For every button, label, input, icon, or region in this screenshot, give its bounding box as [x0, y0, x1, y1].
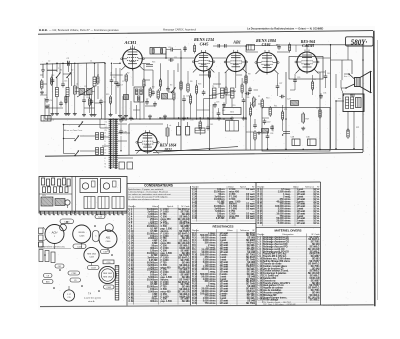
mains coil stack 2	[96, 148, 104, 155]
layout pill small	[95, 215, 105, 219]
ground D	[183, 117, 185, 119]
resistor R20	[250, 106, 252, 117]
heater winding	[166, 124, 169, 144]
oscillator coil T1	[134, 87, 144, 102]
header imprint right	[247, 26, 323, 30]
wire vertical x330	[330, 44, 332, 149]
capacitor C48	[202, 90, 206, 96]
capacitor C5	[99, 99, 106, 105]
layout pill C443c	[104, 285, 115, 289]
resistor R7	[208, 69, 210, 79]
tables outer top rule	[127, 182, 321, 184]
supply resistor R30	[199, 118, 201, 135]
switch position labels	[105, 122, 108, 169]
resistor R29	[319, 108, 321, 119]
apron small components row1	[42, 178, 71, 193]
resistor R2 cathode V1	[125, 73, 127, 83]
capacitor C11	[168, 58, 174, 62]
capacitor C15	[166, 48, 178, 52]
ground F	[258, 131, 260, 133]
wire lattice left RF	[40, 63, 102, 119]
supply cap C42	[217, 108, 221, 117]
resistor R14	[89, 97, 91, 107]
electrolytic C28	[291, 137, 301, 146]
tuning gang CV1	[77, 87, 94, 98]
resistor R17	[190, 94, 192, 105]
resistor R6	[187, 82, 189, 93]
capacitor C13	[61, 82, 65, 88]
table materiel divers rows	[258, 236, 321, 302]
trimmer CV2	[162, 94, 168, 100]
capacitor C9	[145, 99, 149, 105]
capacitor C19	[222, 102, 226, 108]
capacitor C14	[82, 98, 86, 104]
tube V3 AB1	[225, 40, 247, 74]
apron transformer hatched	[41, 195, 65, 206]
switch ladder output wires	[118, 123, 127, 125]
mains coil stack 1	[96, 133, 104, 140]
mains branch 2	[64, 153, 76, 155]
tables divider x190	[190, 186, 192, 305]
layout left rect column	[39, 250, 55, 263]
layout small tube C17	[63, 290, 74, 301]
left supply caps	[119, 117, 128, 151]
electrolytic C34	[177, 122, 181, 135]
speaker terminals	[345, 73, 350, 89]
grid network box	[262, 129, 269, 134]
capacitor C10	[153, 101, 157, 107]
wire V5 to output	[307, 44, 363, 46]
output stage box	[262, 108, 330, 152]
apron socket box 1	[80, 179, 98, 193]
resistor R18	[196, 84, 198, 95]
capacitor C25 top band	[277, 44, 281, 50]
capacitor C46	[151, 90, 155, 96]
layout connect lines	[54, 244, 56, 250]
resistor R10	[261, 98, 263, 109]
chassis lug row	[39, 211, 127, 215]
capacitor C50	[253, 123, 257, 129]
ground C3	[46, 105, 48, 107]
wire right rail drops	[341, 60, 343, 80]
table col3 headers	[258, 185, 320, 188]
layout pill C443 top	[60, 219, 74, 224]
resistor R15	[110, 95, 112, 105]
resistor R26	[254, 130, 256, 141]
V5 screen box	[289, 57, 323, 80]
potentiometer P1	[250, 96, 257, 108]
resistor R19	[241, 83, 243, 94]
table col2 cap rows	[192, 188, 255, 220]
layout pill C445 below T2	[73, 244, 86, 248]
wire lattice V2	[199, 71, 236, 119]
resistor R27	[302, 112, 310, 124]
wire top antenna bus	[40, 63, 105, 65]
tables left border	[126, 184, 128, 306]
ground L1	[56, 112, 58, 114]
table scan smudge overlay	[128, 187, 320, 305]
layout tube C445	[73, 225, 91, 243]
table col2 headers	[192, 185, 255, 188]
materiel divers rule	[256, 227, 321, 229]
layout tube REN1864 big	[99, 266, 116, 283]
resistor R12 top band	[194, 44, 196, 54]
wire B+ top link	[142, 57, 194, 59]
model number box 580Y	[346, 37, 374, 47]
wire vertical x246	[245, 60, 247, 150]
loudspeaker LS	[341, 72, 372, 93]
header imprint left	[39, 28, 119, 32]
resistor R3	[149, 87, 151, 98]
table col2 inner rules	[196, 229, 198, 304]
layout pill C1B	[101, 250, 110, 254]
IF transformer T3	[209, 88, 236, 98]
ground G2	[65, 112, 67, 114]
paper noise	[42, 37, 370, 300]
wire RF links	[47, 69, 57, 71]
ground R27	[302, 127, 304, 129]
mains line top	[64, 124, 106, 126]
resistor R28	[283, 132, 290, 134]
layout edge strip	[115, 266, 119, 301]
ground G1	[52, 112, 54, 114]
table materiel divers headers	[258, 233, 321, 236]
capacitor C18	[213, 102, 217, 108]
resistor R8 AB1	[245, 74, 247, 85]
supply cap C41	[206, 118, 210, 131]
capacitor C2 in antenna lead	[67, 58, 70, 66]
tube interior details	[121, 47, 320, 153]
wire vertical x286	[285, 72, 287, 149]
resistor R37	[225, 86, 227, 96]
capacitor C40	[324, 74, 328, 80]
supply top wire	[160, 117, 246, 119]
tube V4 RENS 1884 C446	[256, 38, 279, 74]
capacitor C43	[51, 78, 55, 84]
tube V2 RENS 1234 C445	[193, 37, 214, 73]
ground L4	[74, 112, 76, 114]
band switch S2	[66, 73, 71, 79]
wire E links	[241, 78, 243, 85]
layout pill C443b	[88, 266, 100, 270]
layout left terminal rects	[39, 228, 44, 247]
ground V1 cathode	[119, 114, 121, 116]
resistor R11	[269, 106, 271, 117]
filter choke	[195, 128, 205, 133]
resistances rule	[191, 222, 257, 224]
table condensateurs intro	[128, 188, 171, 201]
capacitor C24	[279, 95, 285, 99]
wire top over V4-V5	[277, 44, 307, 46]
capacitor C38	[266, 134, 270, 140]
coil L4	[74, 86, 77, 94]
dial lamp	[119, 162, 133, 169]
ground C14	[83, 113, 85, 115]
wire grid bus	[45, 118, 232, 120]
resistor R13	[51, 76, 53, 86]
padder C8	[124, 95, 129, 100]
layout pill C7B2	[68, 271, 80, 275]
table resistances rows	[192, 232, 256, 305]
capacitor C7	[116, 82, 123, 88]
resistor R25 top band	[289, 43, 291, 53]
capacitor C23	[270, 125, 274, 131]
capacitor C21	[245, 92, 251, 96]
wire lattice V1	[116, 63, 178, 119]
mains vertical	[63, 125, 65, 154]
ground L3	[94, 113, 96, 115]
resistor R16 horizontal	[146, 65, 153, 67]
tables right border	[320, 182, 322, 305]
capacitor C27	[287, 98, 299, 105]
wire vertical x181	[180, 51, 182, 150]
table footnote	[263, 301, 296, 306]
supply box 2	[226, 121, 239, 132]
ground E	[243, 117, 245, 119]
wire top over V4 gap	[246, 44, 277, 47]
layout tube AB1	[99, 224, 117, 248]
layout pill C9	[70, 278, 81, 282]
mains branch 1	[64, 138, 76, 140]
ground B	[110, 113, 112, 115]
capacitor C47	[166, 86, 170, 92]
coil L1	[55, 88, 58, 97]
capacitor C12 top band	[183, 46, 187, 52]
tube V6 rectifier REN 1821	[136, 133, 176, 154]
component value labels	[60, 47, 326, 127]
wire D links	[183, 95, 185, 97]
ground L2	[68, 112, 70, 114]
layout pill C82	[55, 264, 64, 268]
capacitor C45	[114, 80, 118, 86]
antenna terminal	[41, 64, 45, 78]
wire schematic bottom bus 2	[45, 153, 363, 157]
ground mid2	[164, 115, 166, 117]
resistor R34	[143, 78, 145, 88]
resistor R22	[312, 80, 314, 91]
table col1 rows	[129, 208, 191, 303]
resistor R4	[157, 89, 159, 100]
resistor R32	[65, 95, 67, 105]
electrolytic C30	[306, 137, 316, 146]
wire V1 extras	[111, 63, 113, 78]
field coil wires	[336, 100, 344, 102]
ground mid1	[149, 115, 151, 117]
band switch S1	[56, 73, 61, 79]
layout rect C16	[103, 260, 114, 264]
page right border	[374, 31, 375, 306]
apron small circle	[65, 200, 70, 208]
layout tube C443 rect	[84, 247, 99, 262]
ground G6	[218, 117, 220, 119]
wire 250 links	[254, 119, 256, 123]
tube V5 RES 964 C443H	[296, 40, 319, 74]
capacitor C16 top	[218, 44, 220, 48]
resistor R1 antenna	[41, 79, 43, 90]
capacitor C3	[45, 97, 52, 103]
header imprint middle	[163, 28, 197, 31]
block detector box	[223, 108, 241, 115]
resistor R21	[282, 110, 284, 121]
capacitor C20	[248, 87, 252, 93]
electrolytic C35	[186, 122, 190, 135]
resistor R33	[97, 75, 99, 85]
table resistances headers	[192, 229, 255, 232]
junction dots extra	[62, 44, 354, 151]
capacitor C26	[182, 97, 186, 103]
output transformer T4	[343, 94, 364, 112]
header row rules	[127, 207, 191, 209]
layout oval C115	[93, 231, 100, 242]
wire input verticals	[56, 78, 58, 88]
layout tube ACH1	[43, 224, 67, 243]
ground antenna	[41, 91, 43, 93]
tube V1 ACH1	[121, 40, 144, 71]
layout pill AB1	[43, 280, 54, 284]
resistor R5	[180, 80, 182, 91]
wire vertical x209	[209, 71, 211, 150]
scan wash	[38, 26, 375, 310]
capacitor C6	[110, 78, 114, 84]
layout screw dots	[44, 221, 113, 292]
coupling box top V3	[247, 45, 255, 51]
table col3 res rows	[258, 188, 320, 225]
tables divider x256	[255, 183, 257, 306]
ground G7	[231, 117, 233, 119]
apron socket box 2	[101, 179, 121, 193]
capacitor C37	[276, 84, 280, 90]
table col1 headers	[129, 206, 191, 208]
header rule	[38, 31, 373, 35]
paper noise 2	[44, 30, 368, 304]
table col3 inner rules	[261, 234, 263, 304]
wire vertical x320	[319, 72, 321, 149]
capacitor C22	[263, 119, 272, 125]
ground G3	[91, 113, 93, 115]
resistor R35	[159, 78, 161, 88]
wire schematic bottom bus 1	[135, 149, 363, 150]
wire V1 leads	[119, 68, 121, 114]
battery box	[41, 116, 55, 122]
wire heater diagonal	[153, 147, 238, 153]
chassis rear apron box	[39, 177, 127, 214]
component reference labels scatter	[48, 57, 359, 135]
rectifier enclosure	[128, 124, 130, 155]
ground G5	[130, 117, 132, 119]
layout pill C8	[44, 274, 53, 278]
ground osc	[125, 114, 127, 116]
wire top over V2-V3	[213, 45, 246, 47]
IF transformer T2	[150, 48, 166, 55]
wire right vertical rail	[362, 45, 364, 152]
ground G4	[122, 117, 124, 119]
page bottom border	[40, 305, 374, 307]
chassis apron divider lines	[71, 177, 73, 214]
capacitor C39	[293, 78, 297, 84]
wire plate to transformer	[331, 59, 353, 61]
switch S3	[171, 88, 176, 94]
wire G links	[294, 74, 296, 78]
capacitor C44	[90, 99, 94, 105]
capacitor C4	[59, 101, 63, 107]
wire F links	[277, 74, 279, 84]
wire top interlinks	[178, 49, 181, 51]
capacitor C36	[242, 98, 246, 104]
table col1 inner rules	[133, 205, 135, 305]
tone capacitor C31	[319, 93, 323, 99]
wave band switch ladder	[109, 119, 118, 170]
capacitor C17 top	[225, 44, 227, 48]
hum resistor	[347, 128, 349, 139]
coil L3	[93, 77, 96, 86]
resistor R36	[173, 91, 175, 101]
apron mid rects	[84, 197, 124, 209]
coil L2	[66, 88, 69, 97]
